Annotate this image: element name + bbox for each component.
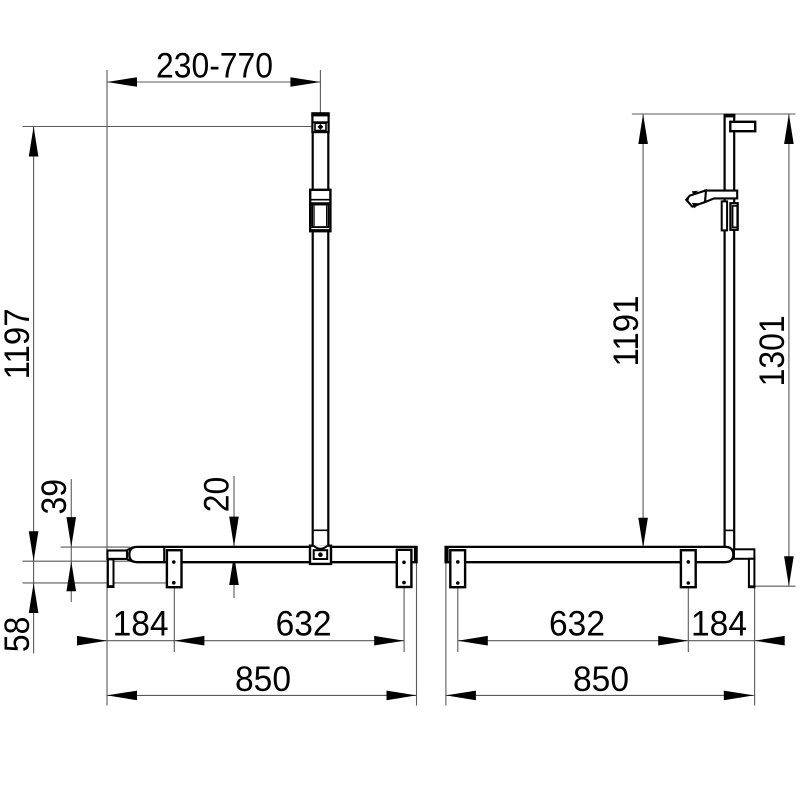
svg-text:58: 58 xyxy=(0,617,37,653)
bar joint line near cap xyxy=(163,548,165,562)
svg-text:1191: 1191 xyxy=(607,296,646,367)
extension line right leg xyxy=(754,587,756,705)
extension line bar left end right view xyxy=(445,563,447,706)
dimension 850 left view xyxy=(107,660,417,700)
svg-text:632: 632 xyxy=(549,604,605,643)
T junction box xyxy=(310,546,331,564)
hand shower handle xyxy=(705,191,738,203)
top wall bracket xyxy=(311,113,329,132)
svg-text:184: 184 xyxy=(691,604,747,643)
horizontal grab bar xyxy=(129,547,416,562)
right view grab bar xyxy=(446,547,734,562)
reference line screw axis xyxy=(23,582,167,584)
wall bracket 3 xyxy=(450,550,465,587)
svg-text:632: 632 xyxy=(276,604,332,643)
reference line bar top ext xyxy=(61,546,131,548)
right vertical rail xyxy=(724,114,736,549)
slider unit xyxy=(310,190,330,231)
extension line bracket1 screws (x=174.3) xyxy=(173,587,175,652)
wall bracket 2 xyxy=(397,550,412,587)
hand shower head xyxy=(686,190,706,208)
extension line rail center top (x=320.4) xyxy=(319,70,321,116)
rail joint line right xyxy=(725,529,735,531)
right leg xyxy=(748,559,755,588)
rail joint line xyxy=(313,529,328,531)
svg-text:20: 20 xyxy=(198,477,237,513)
reference line top (1197 datum) xyxy=(23,126,313,128)
hand shower holder left clamp xyxy=(722,201,727,230)
svg-text:1301: 1301 xyxy=(753,315,792,386)
extension line bracket4 screws xyxy=(687,587,689,652)
dimension row 632 / 184 right view xyxy=(458,604,785,645)
svg-text:1197: 1197 xyxy=(0,308,37,379)
dimension 39 xyxy=(35,479,76,602)
extension line bracket3 screws xyxy=(457,587,459,652)
reference line top right xyxy=(632,113,796,115)
hand shower holder clip xyxy=(730,203,737,230)
svg-text:184: 184 xyxy=(113,604,169,643)
dimension 850 right view xyxy=(446,660,754,700)
dimension 1191 xyxy=(607,114,648,548)
dimension row 184 / 632 left view xyxy=(77,604,404,645)
left vertical rail xyxy=(313,132,329,547)
extension line left (x=107) xyxy=(106,70,108,706)
reference line bottom right leg xyxy=(755,585,796,587)
svg-text:39: 39 xyxy=(35,479,74,515)
dimension 1197 xyxy=(0,127,38,654)
reference line bar bottom ext xyxy=(23,560,131,562)
wall bracket 4 xyxy=(681,550,696,587)
extension line bracket2 screws (x=404.1) xyxy=(403,587,405,652)
dimension 230-770 xyxy=(107,47,320,87)
svg-text:850: 850 xyxy=(573,660,629,699)
dimension 58 xyxy=(0,583,38,652)
dimension 20 xyxy=(198,476,239,598)
svg-text:230-770: 230-770 xyxy=(156,47,273,86)
wall bracket 1 xyxy=(167,550,182,587)
holder inner panel xyxy=(733,206,738,227)
right elbow tube xyxy=(734,549,754,559)
dimension 1301 xyxy=(753,114,794,586)
center line (20 datum) xyxy=(227,554,310,556)
top knob xyxy=(730,122,755,131)
left leg xyxy=(107,559,115,587)
wall cap left end xyxy=(107,547,132,562)
svg-text:850: 850 xyxy=(235,660,291,699)
extension line bar right end (x=416.5) xyxy=(416,562,418,705)
